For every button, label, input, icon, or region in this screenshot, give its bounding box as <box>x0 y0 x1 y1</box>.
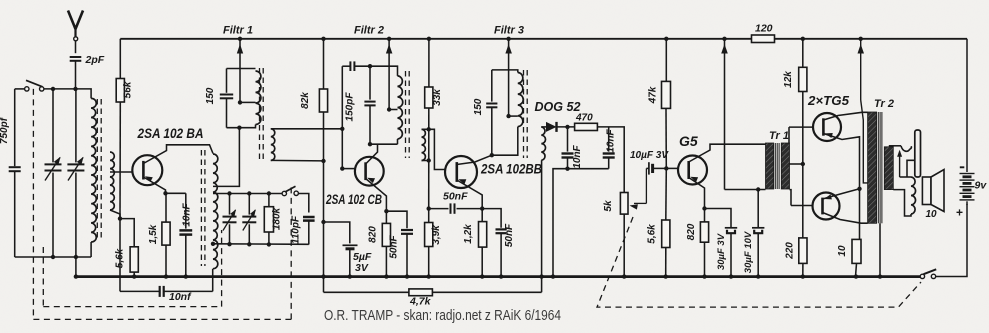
svg-text:2SA 102 BA: 2SA 102 BA <box>137 126 204 141</box>
wire: Filtr3 tap (arrow) <box>508 39 510 116</box>
wire <box>428 39 430 87</box>
wire: left branch <box>14 89 16 166</box>
wire: caps ground return <box>553 169 609 277</box>
core (dashed) of ferrite rod <box>96 99 98 240</box>
node: bottom bus junction <box>664 274 668 278</box>
variable capacitor C-tune1 <box>45 163 62 165</box>
wire: AGC tap to 5uF <box>324 222 350 243</box>
resistor 10 (common emitter) <box>852 239 861 263</box>
wire <box>14 171 16 257</box>
resistor 56k <box>116 79 124 103</box>
node: bottom bus junction <box>74 274 78 278</box>
node <box>340 166 344 170</box>
node: bottom bus junction <box>622 274 626 278</box>
resistor 5.6k (G5 base) <box>662 220 670 248</box>
wire: base line up to 150pF <box>341 66 343 168</box>
wire: Tr1 primary bottom to bus (arrow) <box>724 39 726 190</box>
variable capacitor C-osc1 <box>229 194 231 215</box>
resistor 5.6k <box>130 247 138 272</box>
wire <box>119 102 121 219</box>
svg-text:33k: 33k <box>432 89 443 106</box>
svg-text:2SA 102BB: 2SA 102BB <box>480 161 542 177</box>
wire: osc bottom wire <box>213 243 309 246</box>
svg-text:3,9k: 3,9k <box>431 225 442 245</box>
node: top bus junction <box>664 37 668 41</box>
svg-text:10: 10 <box>837 245 848 257</box>
wiper <box>634 202 646 204</box>
node: top bus junction <box>801 37 805 41</box>
wire: osc coil bottom through bus to AGC line <box>212 269 214 292</box>
wire: Filtr1 tap to bus (arrow) <box>239 39 241 103</box>
coil L1a (ferrite rod primary) <box>91 98 96 242</box>
node <box>387 107 391 111</box>
shield (dashed) antenna box <box>32 89 34 320</box>
node <box>565 125 569 129</box>
node: top bus junction <box>859 37 863 41</box>
svg-text:G5: G5 <box>679 133 698 149</box>
node: bottom bus junction <box>480 274 484 278</box>
wire: base <box>342 168 356 170</box>
wire <box>75 41 77 53</box>
node <box>237 126 241 130</box>
wire: coil bottom <box>422 160 429 162</box>
capacitor 150 (Filtr3) <box>491 70 493 102</box>
variable capacitor C-tune2 <box>67 163 84 165</box>
node <box>427 158 431 162</box>
svg-text:2pF: 2pF <box>85 54 105 66</box>
svg-text:150: 150 <box>205 87 216 104</box>
capacitor 10nF (detector 1) <box>567 127 569 152</box>
node <box>427 127 431 131</box>
svg-text:5,6k: 5,6k <box>647 224 658 244</box>
wire: Tr1 secondary centre tap <box>790 163 803 165</box>
node <box>756 187 760 191</box>
resistor 1.5k <box>165 193 167 222</box>
wire: secondary top to base line <box>271 128 343 130</box>
coil L5 (Filtr3) <box>518 73 523 127</box>
svg-text:470: 470 <box>575 113 593 124</box>
wire: base tap <box>110 171 133 173</box>
svg-text:3V: 3V <box>355 262 369 274</box>
node: top bus junction <box>387 37 391 41</box>
svg-text:Filtr 3: Filtr 3 <box>494 25 524 37</box>
svg-text:150: 150 <box>473 98 484 115</box>
node: bottom bus junction <box>321 274 325 278</box>
node: bottom bus junction <box>756 274 760 278</box>
svg-text:50nF: 50nF <box>443 191 468 203</box>
core (dashed) Filtr3 <box>523 70 525 158</box>
coil L2 (Filtr1) <box>256 71 261 125</box>
wire: secondary bottom to AGC <box>271 159 324 162</box>
coil L2b (secondary to T2 base) <box>271 129 275 161</box>
wire: collector <box>823 213 868 224</box>
wire: Filtr2 tap (arrow) <box>388 39 390 110</box>
wire: secondary top to jack contact <box>889 145 901 147</box>
svg-text:10: 10 <box>926 209 938 220</box>
wire: collector <box>457 155 492 164</box>
wire: to 5.6k <box>120 219 134 247</box>
node <box>267 191 271 195</box>
node: bottom bus junction <box>184 274 188 278</box>
wire: to ground bus <box>75 257 77 277</box>
node <box>51 87 55 91</box>
wire: antenna box top <box>15 88 25 90</box>
node <box>51 255 55 259</box>
svg-text:Filtr 2: Filtr 2 <box>354 25 384 37</box>
capacitor 150 (Filtr1) <box>226 69 228 93</box>
wire: antenna box bottom <box>15 256 91 258</box>
wire: collector <box>366 144 378 164</box>
svg-text:10nf: 10nf <box>169 291 192 303</box>
svg-text:9v: 9v <box>975 180 988 192</box>
node: top bus junction <box>427 37 431 41</box>
wire: osc top wire <box>213 193 282 195</box>
node: emitter <box>163 191 167 195</box>
wire <box>90 242 92 257</box>
wire: tap <box>389 109 397 111</box>
resistor 3.9k <box>425 223 433 247</box>
node: G5 base node <box>664 166 668 170</box>
wire <box>75 61 77 89</box>
node: bottom bus junction <box>427 274 431 278</box>
node: bottom bus junction <box>539 274 543 278</box>
node: top bus junction <box>238 37 242 41</box>
wire: 50nF coupling line <box>429 208 449 210</box>
node: top bus junction <box>506 37 510 41</box>
node: bottom bus junction <box>551 274 555 278</box>
transistor T3 2SA102BB <box>445 156 477 188</box>
node: bottom bus junction <box>164 274 168 278</box>
node: antenna terminal <box>74 37 78 41</box>
node <box>368 142 372 146</box>
svg-text:50nF: 50nF <box>389 234 400 258</box>
svg-text:5,6k: 5,6k <box>115 248 126 268</box>
resistor 82k <box>319 89 327 112</box>
wire: tank bottom / collector <box>397 139 399 144</box>
transistor T2 2SA102CB <box>355 157 384 186</box>
resistor 820 (T2 emitter) <box>385 211 387 223</box>
wire: bias line <box>802 92 804 238</box>
svg-text:10nF: 10nF <box>606 128 617 152</box>
node <box>247 242 251 246</box>
node <box>490 153 494 157</box>
wire: coil bottom <box>492 127 518 156</box>
node: osc tap <box>211 242 215 246</box>
node <box>118 216 122 220</box>
wire: collector <box>143 145 213 164</box>
svg-text:750pf: 750pf <box>0 116 10 144</box>
wire: Tr2 centre tap to bus (arrow) <box>860 39 862 100</box>
wire: var cap 2 branch <box>75 89 77 162</box>
node <box>227 191 231 195</box>
transistor T1 2SA102BA <box>132 155 162 185</box>
node <box>247 191 251 195</box>
svg-text:DOG 52: DOG 52 <box>535 100 581 114</box>
wire: tap <box>240 101 256 103</box>
wire: collector to Tr1 <box>689 144 766 162</box>
capacitor 150pF (top, horizontal) <box>342 65 350 67</box>
switch S1b (osc waveband) <box>282 191 286 195</box>
wire: 47k from bus <box>665 39 667 82</box>
svg-text:1,5k: 1,5k <box>148 224 159 244</box>
wire: base <box>791 205 813 207</box>
capacitor 10nF (detector 2) <box>608 127 610 152</box>
transistor T4 G5 <box>678 156 707 185</box>
capacitor 5uF 3V (electrolytic) <box>343 244 358 246</box>
node: bottom bus junction <box>729 274 733 278</box>
mechanical link (dashed) volume/power switch <box>597 217 921 307</box>
svg-text:820: 820 <box>368 226 379 243</box>
wire: to 5.6k <box>665 168 668 220</box>
node <box>238 100 242 104</box>
node <box>340 127 344 131</box>
node <box>321 220 325 224</box>
earphone jack <box>915 130 921 177</box>
node: bottom bus junction <box>348 274 352 278</box>
wire: coil bottom to bias node <box>110 210 120 291</box>
svg-text:Tr 1: Tr 1 <box>769 130 789 142</box>
capacitor 110pF <box>303 216 315 219</box>
svg-text:180k: 180k <box>272 207 283 230</box>
coil (speaker voice coil) <box>900 176 911 178</box>
core (dashed) Filtr1 <box>259 68 261 160</box>
capacitor 10nF (horizontal) <box>159 286 161 297</box>
capacitor 10uF 3V (coupling electrolytic) <box>646 167 649 169</box>
wire: to volume pot <box>597 127 624 193</box>
svg-text:150pF: 150pF <box>345 92 356 122</box>
wire: down to 3.9k <box>428 108 430 223</box>
capacitor 10nF (emitter bypass) <box>185 193 187 228</box>
transistor T5 TG5 (upper) <box>813 113 841 141</box>
capacitor 2pF <box>70 56 82 58</box>
node: bottom bus junction <box>499 274 503 278</box>
capacitor 50nF (T2 emitter bypass) <box>386 211 407 228</box>
node <box>227 242 231 246</box>
svg-text:56k: 56k <box>123 81 134 98</box>
svg-text:12k: 12k <box>783 71 794 88</box>
svg-text:+: + <box>956 206 963 220</box>
node <box>506 114 510 118</box>
svg-text:30µF 3V: 30µF 3V <box>716 233 727 270</box>
node: top bus junction <box>321 37 325 41</box>
node <box>267 242 271 246</box>
node: bottom bus junction <box>405 274 409 278</box>
svg-text:50nF: 50nF <box>504 223 515 247</box>
svg-text:47k: 47k <box>648 86 659 104</box>
capacitor 30uF 3V <box>705 209 732 228</box>
wire: primary bottom <box>725 189 766 191</box>
wire: emitter <box>823 134 859 240</box>
wire: base <box>789 126 813 128</box>
svg-text:Filtr 1: Filtr 1 <box>223 25 253 37</box>
node <box>73 87 77 91</box>
variable capacitor C-osc2 <box>248 194 250 215</box>
wire: emitter <box>823 189 860 199</box>
wire: jack contact tab <box>907 160 915 177</box>
node <box>384 209 388 213</box>
wire: collector <box>823 112 867 120</box>
resistor 12k <box>799 67 807 91</box>
coil L4b (feedback to T3 base) <box>422 129 426 160</box>
capacitor 30uF 10V <box>757 190 759 228</box>
node: bottom bus junction <box>801 274 805 278</box>
coil L3 (oscillator, tapped) <box>213 154 218 269</box>
svg-text:Tr 2: Tr 2 <box>874 98 894 110</box>
wire: emitter <box>366 179 387 212</box>
wire: tank top <box>227 68 256 70</box>
resistor 120 (inline in top bus) <box>752 35 775 43</box>
wire: top -9V bus <box>120 38 751 40</box>
resistor 180k <box>268 194 270 207</box>
coil L5b (to detector) <box>541 127 545 160</box>
coil L4 (Filtr2/osc) <box>398 76 403 139</box>
node: bottom bus junction <box>878 274 882 278</box>
wire: tap <box>509 115 518 117</box>
node: bottom bus junction <box>854 274 858 278</box>
wire: bottom +9V (ground) bus <box>76 275 920 278</box>
node: bottom bus junction <box>702 274 706 278</box>
node <box>565 167 569 171</box>
wire <box>119 39 121 79</box>
resistor 47k <box>662 81 671 108</box>
svg-text:5k: 5k <box>603 200 614 212</box>
coil L1b (secondary to base) <box>110 152 114 210</box>
wire: emitter <box>143 177 165 193</box>
node <box>74 255 78 259</box>
capacitor 750pF <box>9 166 21 168</box>
svg-text:82k: 82k <box>300 92 311 109</box>
switch S2 (power, in bottom bus) <box>920 274 924 278</box>
wire: to T3 base <box>422 129 446 169</box>
node <box>480 206 484 210</box>
svg-text:820: 820 <box>686 223 697 240</box>
switch S1a (waveband) <box>25 87 29 91</box>
wire: tank top <box>492 70 518 73</box>
battery 9V <box>966 39 968 172</box>
node <box>801 162 805 166</box>
svg-text:O.R. TRAMP - skan: radjo.net z: O.R. TRAMP - skan: radjo.net z RAiK 6/19… <box>324 308 561 324</box>
svg-text:110pF: 110pF <box>291 215 302 244</box>
wire <box>802 39 804 68</box>
potentiometer 5k <box>620 193 628 215</box>
wire: base to Tr1 secondary top <box>788 127 790 143</box>
antenna <box>68 11 76 30</box>
wire: Tr2 frame to bus <box>879 223 881 276</box>
node: top bus junction <box>722 37 726 41</box>
node <box>321 159 325 163</box>
node <box>368 64 372 68</box>
core (dashed) osc <box>200 150 202 266</box>
node: bottom bus junction <box>384 274 388 278</box>
resistor 4.7k (AGC) <box>324 291 409 293</box>
core (dashed) Filtr2 <box>405 71 407 158</box>
speaker <box>922 177 931 205</box>
resistor 1.2k <box>481 209 483 222</box>
wire: speaker return <box>893 190 911 216</box>
resistor 33k <box>425 87 433 108</box>
wire: AGC line down to 4.7k <box>323 112 325 292</box>
capacitor 50nF (horizontal) <box>450 203 452 213</box>
wire: bus from switch to battery <box>936 204 967 277</box>
svg-text:2SA 102 CB: 2SA 102 CB <box>325 192 382 207</box>
svg-text:30µF 10V: 30µF 10V <box>743 231 754 273</box>
svg-text:10nF: 10nF <box>572 144 583 168</box>
resistor 220 <box>799 238 807 264</box>
wire: base to Tr1 secondary bottom <box>790 190 792 206</box>
wire: emitter node <box>166 192 186 194</box>
capacitor 50nF (vertical) <box>496 228 507 230</box>
svg-text:220: 220 <box>785 242 796 260</box>
wire: AGC line with 10nF to osc coil <box>120 290 160 292</box>
node <box>702 206 706 210</box>
svg-text:1,2k: 1,2k <box>463 224 474 244</box>
transistor T6 TG5 (lower) <box>813 193 840 220</box>
wire <box>323 39 325 89</box>
wire: secondary bottom to ground <box>541 160 543 292</box>
svg-text:4,7k: 4,7k <box>409 296 432 308</box>
wire: var cap 1 branch <box>52 89 54 162</box>
svg-text:10nF: 10nF <box>182 202 193 226</box>
wire: emitter <box>689 178 705 209</box>
resistor 820 (G5 emitter) <box>704 209 706 222</box>
svg-text:120: 120 <box>755 23 773 35</box>
svg-text:2×TG5: 2×TG5 <box>807 93 850 108</box>
node: bottom bus junction <box>132 274 136 278</box>
jack spring contact <box>901 146 911 151</box>
wire: base <box>666 167 678 169</box>
svg-text:10µF 3V: 10µF 3V <box>630 150 669 161</box>
wire: Filtr1 bottom to osc coil tap <box>213 128 239 187</box>
wire: emitter <box>457 180 482 209</box>
node <box>427 206 431 210</box>
wire: tank bottom <box>227 125 256 128</box>
resistor 470 <box>575 123 598 130</box>
node: common emitters <box>857 187 861 191</box>
